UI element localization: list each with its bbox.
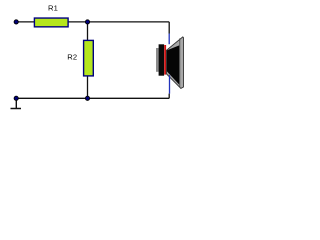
svg-text:R2: R2 — [67, 53, 77, 62]
svg-text:R1: R1 — [48, 4, 58, 13]
